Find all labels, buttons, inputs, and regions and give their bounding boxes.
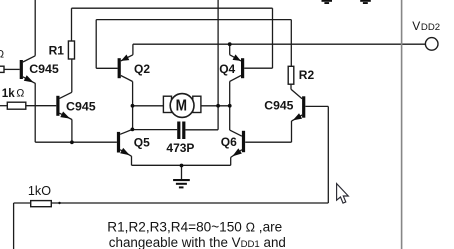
transistor Q5 emitter [120, 150, 131, 157]
wire: capacitor left wire [132, 129, 177, 131]
transistor C945 Q1 base bar [20, 60, 23, 79]
wire: Q1 base lead [4, 68, 20, 70]
transistor Q5 emitter arrow [120, 148, 130, 155]
svg-text:V: V [412, 19, 420, 33]
junction dot motor right / top vertical [216, 104, 220, 108]
svg-text:1kO: 1kO [28, 184, 51, 198]
transistor Q6 emitter [231, 150, 242, 158]
transistor Q2 emitter arrow [121, 55, 129, 61]
resistor partial body (top left edge) [0, 66, 4, 72]
wire: Q6 emitter drop [230, 157, 232, 165]
resistor R1 body [68, 41, 74, 59]
junction small dot on 1kO wire [58, 202, 60, 204]
svg-text:Ω: Ω [16, 88, 24, 100]
transistor C945 Q3 collector [60, 92, 72, 98]
junction dot Q2 collector / motor left [131, 104, 135, 108]
junction dot VDD2 rail / Q4 emitter [228, 42, 232, 46]
transistor Q5 collector [120, 129, 132, 134]
junction dot Q1+Q3 emitters [70, 140, 74, 144]
transistor Q4 emitter arrow [233, 54, 241, 60]
svg-text:Q4: Q4 [219, 62, 235, 76]
transistor Q4 collector [230, 76, 241, 82]
ground partial (top, right) bar1 [360, 0, 371, 2]
junction dot cap left / Q5 collector [131, 127, 135, 131]
wire: VDD2 rail [133, 43, 426, 45]
transistor Q2 base bar [118, 58, 121, 78]
transistor Q6 emitter arrow [232, 148, 242, 156]
svg-text:C945: C945 [66, 99, 96, 113]
transistor Q5 base bar [117, 132, 120, 153]
ground bar2 [176, 183, 187, 185]
wire: motor-right vertical from top edge [217, 0, 219, 130]
wire: Q2 emitter riser [132, 44, 134, 55]
junction dot emitter rail / ground [180, 164, 184, 168]
wire: R1 top lead [71, 8, 73, 41]
svg-text:Ω: Ω [0, 49, 4, 61]
wire: Q4 base drop [272, 8, 274, 68]
wire: Q2 base drop [95, 20, 97, 69]
wire: motor right wire [201, 105, 230, 107]
ground bar3 [179, 186, 184, 188]
motor left terminal box [163, 96, 171, 112]
svg-text:R1,R2,R3,R4=80~150 Ω ,are: R1,R2,R3,R4=80~150 Ω ,are [107, 220, 282, 235]
terminal VDD2 circle [425, 38, 438, 51]
wire: R2 bottom lead [290, 84, 292, 89]
wire: Q2 collector riser [132, 82, 134, 130]
wire: R1 bottom lead / Q3 collector riser [71, 59, 73, 92]
transistor C945 Q1 emitter arrow [24, 75, 34, 82]
transistor C945 Q3 emitter [60, 113, 72, 119]
wire: Q3 emitter riser [71, 119, 73, 142]
wire: Q6 base wire [245, 141, 291, 143]
wire: bottom 1kO left lead [14, 202, 31, 204]
svg-text:C945: C945 [29, 62, 59, 76]
junction dot motor right / Q4 collector [228, 104, 232, 108]
transistor Q6 collector [230, 130, 242, 136]
transistor C945 Q3 base bar [56, 96, 59, 116]
resistor 1kO body (bottom) [31, 201, 52, 207]
transistor Q2 collector [121, 76, 133, 82]
svg-text:Q5: Q5 [134, 135, 150, 149]
wire: Q4 emitter riser [229, 44, 231, 55]
ground partial (top, left) bar2 [324, 2, 329, 4]
transistor Q4 base bar [241, 58, 244, 78]
transistor C945 Q1 emitter [23, 77, 36, 84]
transistor C945 QR emitter arrow [293, 113, 302, 120]
wire: net Q2-base / R2-top horizontal [96, 19, 291, 21]
ground partial (top, right) bar2 [363, 2, 368, 4]
capacitor C1 left plate [177, 122, 180, 140]
motor M1 circle [170, 94, 194, 118]
svg-text:C945: C945 [264, 98, 293, 112]
wire: Q5/Q6 emitter rail [132, 164, 231, 166]
wire: bottom-left drop to edge [13, 203, 15, 249]
resistor R2 body [288, 66, 294, 84]
svg-text:R2: R2 [299, 68, 315, 82]
wire: Q1 collector riser to top edge [34, 0, 36, 56]
transistor C945 QR emitter [292, 115, 303, 121]
svg-text:R1: R1 [49, 44, 65, 58]
wire: right C945 base lead [305, 105, 328, 107]
svg-text:Q6: Q6 [221, 135, 237, 149]
wire: Q4/Q6 collector riser [229, 81, 231, 130]
svg-text:1k: 1k [2, 87, 15, 100]
svg-text:changeable with the VDD1 and: changeable with the VDD1 and [109, 235, 286, 249]
wire: Q1 emitter riser [34, 83, 36, 142]
transistor C945 QR collector [291, 89, 302, 99]
ground partial (top, left) bar1 [322, 0, 333, 2]
wire: motor left wire [133, 105, 164, 107]
wire: right C945 base drop [327, 106, 329, 203]
wire: right C945 emitter riser [291, 121, 293, 142]
transistor C945 Q3 emitter arrow [60, 112, 70, 119]
ground (below emitter rail) bar1 [173, 179, 190, 181]
wire: net R1-top / Q4-base horizontal [72, 7, 273, 9]
wire: Q2 base lead [96, 67, 117, 69]
wire: 1k resistor right lead to Q3 base [26, 105, 57, 107]
wire: Q5 emitter drop [131, 156, 133, 165]
wire: R2 top lead [290, 20, 292, 67]
wire: Q4 base lead [244, 67, 272, 69]
wire: ground stem [181, 165, 183, 179]
svg-text:DD2: DD2 [421, 22, 440, 33]
svg-text:Q2: Q2 [134, 62, 150, 76]
capacitor C1 right plate [182, 122, 185, 140]
motor right terminal box [193, 96, 201, 112]
mouse cursor [337, 184, 349, 204]
wire: bottom 1kO wire [51, 202, 328, 204]
wire: 1k resistor left lead [0, 105, 7, 107]
figure border (right, gray) [401, 0, 403, 249]
transistor C945 Q1 collector [23, 56, 35, 62]
svg-text:M: M [176, 97, 187, 114]
svg-text:473P: 473P [166, 141, 194, 155]
transistor Q2 emitter [121, 55, 133, 61]
resistor 1k-ohm body (mid left) [7, 102, 26, 109]
transistor Q6 base bar [242, 131, 245, 152]
wire: Q5 base wire [35, 141, 117, 143]
transistor C945 QR base bar [302, 96, 305, 117]
wire: capacitor right wire [185, 129, 218, 131]
transistor Q4 emitter [230, 55, 241, 61]
